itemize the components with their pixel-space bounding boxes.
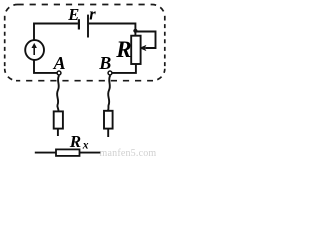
battery E short plate <box>78 19 80 29</box>
resistor R body <box>131 36 140 64</box>
node B terminal <box>108 71 112 75</box>
Rx left lead <box>35 152 56 154</box>
flexible lead from B <box>108 75 110 111</box>
Rx right lead <box>80 152 102 154</box>
node A terminal <box>57 71 61 75</box>
dashed enclosure box top edge <box>18 4 153 6</box>
probe resistor left <box>54 111 63 128</box>
node junction dot <box>133 29 137 33</box>
wire battery to rheostat top <box>89 24 136 36</box>
flexible lead from A <box>57 75 59 111</box>
svg-text:r: r <box>89 5 96 24</box>
current source arrow <box>33 47 35 55</box>
dashed box bottom-left corner arc <box>5 69 16 81</box>
svg-text:B: B <box>98 53 111 73</box>
svg-text:R: R <box>115 37 131 62</box>
dashed enclosure box bottom edge <box>16 80 153 82</box>
probe resistor right <box>104 111 113 129</box>
wiper loop wire <box>135 32 155 49</box>
current source circle <box>25 40 44 60</box>
wire R bottom to node B <box>112 64 135 73</box>
dashed box top-right corner arc <box>152 5 165 17</box>
svg-text:E: E <box>67 5 79 24</box>
right probe stub <box>107 129 109 137</box>
dashed box top-left corner arc <box>5 5 18 17</box>
dashed enclosure box left edge <box>4 17 6 69</box>
svg-text:R: R <box>69 132 81 151</box>
wire from source top to battery <box>34 24 78 42</box>
svg-text:manfen5.com: manfen5.com <box>100 148 157 158</box>
wiper arrowhead <box>139 45 146 51</box>
dashed box bottom-right corner arc <box>153 69 165 81</box>
svg-text:A: A <box>53 53 66 73</box>
svg-text:x: x <box>82 140 89 152</box>
wire source bottom to node A <box>34 59 57 73</box>
resistor Rx body <box>56 149 80 156</box>
dashed enclosure box right edge <box>164 17 166 69</box>
left probe stub <box>57 129 59 136</box>
battery E long plate <box>87 15 89 38</box>
